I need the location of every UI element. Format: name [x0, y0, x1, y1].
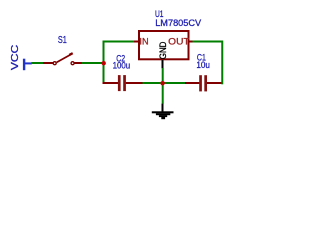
svg-text:S1: S1: [58, 35, 67, 46]
svg-text:IN: IN: [139, 37, 148, 47]
op-amp U1 regulator LM7805CV: [134, 9, 202, 68]
wire VCC to S1: [31, 62, 44, 64]
node A junction: [102, 61, 106, 65]
wire right rail vertical: [221, 41, 223, 85]
ground: [152, 104, 174, 120]
svg-text:LM7805CV: LM7805CV: [155, 18, 202, 29]
wire S1 to node A: [82, 62, 104, 64]
svg-text:100u: 100u: [113, 61, 131, 72]
capacitor C1: [185, 53, 222, 92]
wire vertical node A: [103, 42, 105, 85]
ground node junction: [160, 81, 164, 85]
wire C2 to ground node: [143, 82, 187, 84]
wire GND pin down: [162, 68, 164, 104]
wire to IN pin: [103, 41, 135, 43]
capacitor C2: [103, 54, 144, 91]
svg-text:10u: 10u: [196, 60, 210, 71]
switch S1: [43, 35, 82, 65]
svg-text:OUT: OUT: [168, 37, 190, 47]
svg-text:GND: GND: [158, 41, 168, 59]
wire OUT pin to right rail: [193, 41, 223, 43]
power flag VCC: [10, 45, 32, 71]
svg-text:VCC: VCC: [10, 45, 21, 70]
